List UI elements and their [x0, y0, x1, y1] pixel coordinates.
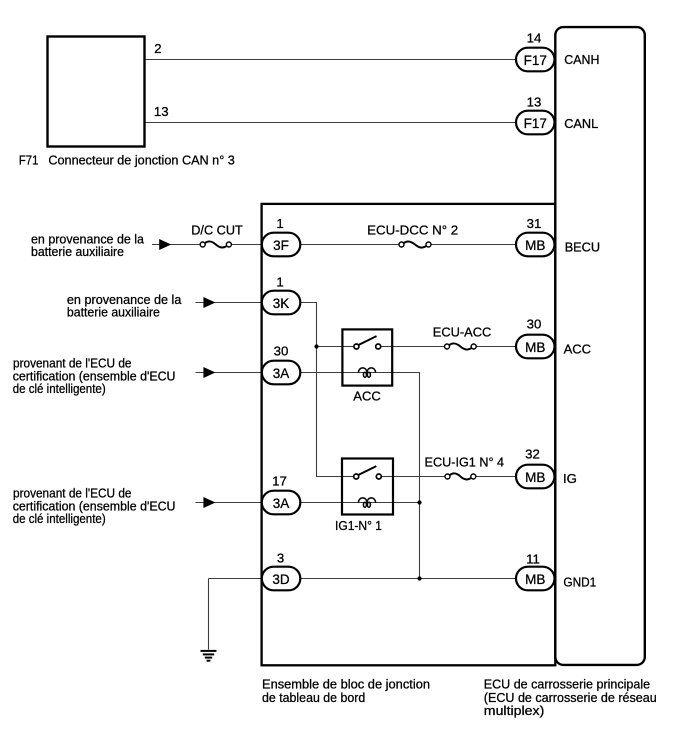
svg-text:batterie auxiliaire: batterie auxiliaire — [31, 244, 124, 259]
svg-text:F17: F17 — [524, 53, 547, 68]
svg-text:F17: F17 — [524, 116, 547, 131]
svg-text:1: 1 — [276, 216, 283, 231]
svg-text:BECU: BECU — [565, 240, 600, 255]
svg-text:ACC: ACC — [564, 342, 592, 357]
svg-text:batterie auxiliaire: batterie auxiliaire — [67, 305, 160, 320]
svg-text:3A: 3A — [273, 366, 290, 381]
svg-text:32: 32 — [525, 446, 540, 461]
svg-text:F71: F71 — [19, 152, 39, 167]
svg-text:13: 13 — [154, 104, 169, 119]
svg-text:CANH: CANH — [564, 52, 599, 67]
svg-text:3F: 3F — [273, 238, 289, 253]
svg-text:Connecteur de jonction CAN n°: Connecteur de jonction CAN n° 3 — [48, 152, 234, 167]
svg-text:30: 30 — [527, 316, 542, 331]
svg-text:13: 13 — [527, 95, 542, 110]
svg-text:ECU-IG1 N° 4: ECU-IG1 N° 4 — [425, 455, 505, 470]
svg-text:de tableau de bord: de tableau de bord — [262, 690, 365, 705]
svg-text:de clé intelligente): de clé intelligente) — [13, 511, 106, 526]
svg-text:3A: 3A — [273, 496, 290, 511]
svg-text:GND1: GND1 — [563, 574, 596, 589]
svg-text:3K: 3K — [273, 296, 290, 311]
svg-text:multiplex): multiplex) — [484, 703, 545, 718]
svg-text:CANL: CANL — [564, 116, 598, 131]
svg-text:3D: 3D — [272, 572, 290, 587]
svg-text:IG1-N° 1: IG1-N° 1 — [335, 518, 382, 533]
svg-text:MB: MB — [525, 470, 545, 485]
svg-text:1: 1 — [276, 274, 283, 289]
svg-text:ECU-ACC: ECU-ACC — [433, 325, 492, 340]
svg-text:31: 31 — [527, 216, 542, 231]
svg-text:de clé intelligente): de clé intelligente) — [13, 381, 106, 396]
svg-text:D/C CUT: D/C CUT — [191, 222, 243, 237]
svg-text:ECU-DCC N° 2: ECU-DCC N° 2 — [367, 222, 458, 237]
svg-text:2: 2 — [154, 41, 161, 56]
svg-text:17: 17 — [272, 474, 287, 489]
svg-text:3: 3 — [277, 550, 284, 565]
svg-text:MB: MB — [525, 340, 545, 355]
svg-text:30: 30 — [274, 344, 289, 359]
svg-text:11: 11 — [526, 551, 540, 566]
svg-text:IG: IG — [563, 471, 577, 486]
svg-text:MB: MB — [525, 238, 545, 253]
svg-text:14: 14 — [527, 31, 542, 46]
svg-text:ACC: ACC — [353, 389, 381, 404]
svg-text:MB: MB — [525, 572, 545, 587]
